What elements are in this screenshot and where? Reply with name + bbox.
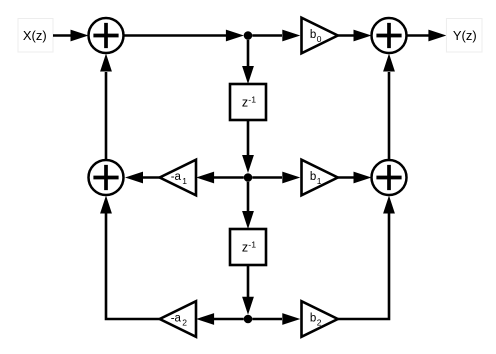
svg-text:0: 0 bbox=[317, 34, 322, 44]
gain b2 (triangle amplifier) bbox=[302, 301, 338, 337]
wire S1 output to node N1 bbox=[124, 30, 244, 42]
svg-text:b: b bbox=[310, 29, 316, 41]
wire X(z) input arrow into summer S1 bbox=[53, 30, 89, 42]
node label Y(z) bbox=[446, 19, 482, 53]
wire b1 output into summer S4 bbox=[338, 172, 372, 184]
svg-text:-1: -1 bbox=[248, 240, 256, 250]
summing junction S1 (top left) bbox=[89, 18, 124, 53]
node N1 (junction dot) bbox=[244, 31, 253, 40]
node label X(z) bbox=[18, 19, 53, 53]
wire delay Z1 output down to node N2 bbox=[242, 120, 254, 173]
wire node N1 to gain b0 bbox=[252, 30, 300, 42]
gain -a2 (triangle amplifier, pointing left) bbox=[160, 301, 196, 337]
wire node N1 down into delay Z1 bbox=[242, 40, 254, 84]
svg-text:-1: -1 bbox=[248, 95, 256, 105]
svg-text:2: 2 bbox=[182, 317, 187, 327]
wire S3 output up into summer S1 bbox=[100, 54, 112, 160]
summing junction S4 (middle right) bbox=[372, 160, 407, 195]
svg-text:b: b bbox=[310, 312, 316, 324]
wire delay Z2 output down to node N3 bbox=[242, 265, 254, 315]
wire b0 output into summer S2 bbox=[338, 30, 372, 42]
svg-text:X(z): X(z) bbox=[23, 28, 47, 43]
svg-text:Y(z): Y(z) bbox=[453, 28, 477, 43]
delay block Z2 (z^-1) bbox=[230, 229, 266, 265]
wire -a2 output left and up into summer S3 bbox=[100, 196, 160, 320]
delay block Z1 (z^-1) bbox=[230, 84, 266, 120]
svg-text:1: 1 bbox=[317, 176, 322, 186]
svg-text:b: b bbox=[310, 171, 316, 183]
summing junction S2 (top right) bbox=[372, 18, 407, 53]
svg-text:z: z bbox=[242, 96, 248, 110]
wire node N3 right into gain b2 bbox=[252, 313, 300, 325]
svg-text:-a: -a bbox=[171, 312, 182, 324]
summing junction S3 (middle left) bbox=[89, 160, 124, 195]
wire b2 output right and up into summer S4 bbox=[338, 196, 395, 320]
gain b0 (triangle amplifier) bbox=[302, 18, 338, 54]
wire node N2 down into delay Z2 bbox=[242, 182, 254, 229]
wire node N2 left into gain -a1 bbox=[196, 172, 244, 184]
svg-text:2: 2 bbox=[317, 317, 322, 327]
wire node N2 right into gain b1 bbox=[252, 172, 300, 184]
wire node N3 left into gain -a2 bbox=[196, 313, 244, 325]
svg-text:-a: -a bbox=[171, 171, 182, 183]
node N3 (junction dot) bbox=[244, 315, 253, 324]
wire -a1 output into summer S3 bbox=[125, 172, 160, 184]
svg-text:z: z bbox=[242, 241, 248, 255]
svg-text:1: 1 bbox=[182, 176, 187, 186]
gain b1 (triangle amplifier) bbox=[302, 160, 338, 196]
gain -a1 (triangle amplifier, pointing left) bbox=[160, 160, 196, 196]
node N2 (junction dot) bbox=[244, 173, 253, 182]
wire S4 output up into summer S2 bbox=[383, 54, 395, 160]
wire S2 output arrow to Y(z) bbox=[407, 30, 447, 42]
